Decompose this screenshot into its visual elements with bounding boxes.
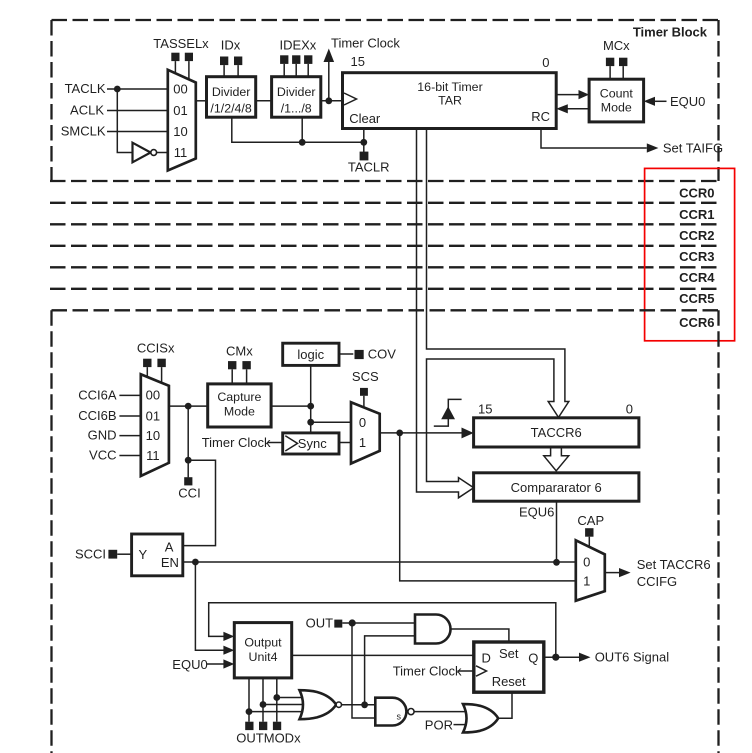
svg-text:Timer Clock: Timer Clock bbox=[202, 435, 271, 450]
svg-text:01: 01 bbox=[146, 409, 160, 424]
wire NOR out to NAND bbox=[342, 704, 376, 706]
inverter (INV) bbox=[133, 143, 168, 163]
wire CCI to latch A input bbox=[183, 460, 216, 545]
svg-text:CCI6B: CCI6B bbox=[78, 408, 116, 423]
wire TACLR stem bbox=[363, 142, 365, 152]
svg-text:SCCI: SCCI bbox=[75, 547, 106, 562]
CMx control squares bbox=[228, 361, 236, 369]
svg-text:CCR3: CCR3 bbox=[679, 249, 714, 264]
wire CCI6A to mux bbox=[119, 394, 140, 396]
svg-text:/1.../8: /1.../8 bbox=[281, 101, 312, 115]
svg-text:Set TACCR6: Set TACCR6 bbox=[637, 557, 711, 572]
junction OUT node bbox=[349, 619, 356, 626]
dashed border: Timer Block box bbox=[50, 20, 719, 181]
wire CCISx squares to mux bbox=[146, 367, 148, 377]
junction CCI tap bbox=[185, 403, 192, 410]
CCR separator dashed lines bbox=[50, 203, 717, 289]
IDEXx control squares bbox=[280, 55, 288, 64]
wire TACLK to mux bbox=[107, 88, 168, 90]
svg-text:Output: Output bbox=[244, 635, 282, 649]
svg-text:0: 0 bbox=[542, 55, 549, 70]
mux SCS bbox=[351, 402, 380, 463]
hollow arrow TACCR6 to Comparator bbox=[544, 447, 569, 471]
wire AND bottom input from NOR line bbox=[365, 636, 415, 705]
svg-text:CAP: CAP bbox=[577, 513, 604, 528]
wire logic down to Sync bbox=[310, 365, 312, 433]
OUT square bbox=[334, 620, 342, 628]
junction CCI to A branch bbox=[185, 457, 192, 464]
wire AND out to FF Set bbox=[451, 629, 509, 642]
arrow into TACCR6 bbox=[462, 428, 474, 439]
svg-text:Timer Clock: Timer Clock bbox=[393, 663, 462, 678]
wire OUTMOD drop 2 bbox=[262, 678, 264, 722]
gate AND (set) bbox=[415, 615, 451, 644]
svg-text:RC: RC bbox=[531, 109, 550, 124]
wire SCS mux out to TACCR6 bbox=[380, 432, 463, 434]
svg-text:15: 15 bbox=[478, 401, 492, 416]
svg-text:16-bit Timer: 16-bit Timer bbox=[417, 80, 482, 94]
OUTMODx squares bbox=[245, 722, 281, 730]
svg-text:TACLK: TACLK bbox=[65, 81, 106, 96]
wire Timer Clock to FF bbox=[458, 670, 474, 672]
wire Timer Clock to Sync bbox=[268, 442, 283, 444]
junction OUTMOD 3 bbox=[273, 694, 280, 701]
wire SCS signal to CAP mux 1 input bbox=[400, 433, 576, 581]
svg-text:COV: COV bbox=[368, 347, 397, 362]
wire Divider1 to Divider2 bbox=[256, 100, 272, 102]
flip-flop D/Set/Reset/Q bbox=[474, 642, 544, 692]
wire SMCLK to mux bbox=[107, 131, 168, 133]
dashed border: CCR6 box bbox=[52, 310, 719, 753]
svg-text:11: 11 bbox=[146, 448, 160, 463]
svg-text:0: 0 bbox=[626, 401, 633, 416]
junction OUTMOD 2 bbox=[260, 701, 267, 708]
register TAR (16-bit Timer) bbox=[343, 73, 557, 129]
junction EQU6/EN bbox=[553, 559, 560, 566]
wire Count Mode to TAR (arrow left) bbox=[567, 108, 589, 110]
svg-text:Timer Clock: Timer Clock bbox=[331, 35, 400, 50]
svg-text:CCISx: CCISx bbox=[137, 341, 175, 356]
arrow OUT6 Signal bbox=[579, 653, 591, 662]
divider U2 /1.../8 bbox=[272, 77, 321, 118]
svg-text:IDEXx: IDEXx bbox=[279, 37, 316, 52]
gate OR (reset) bbox=[463, 704, 498, 732]
wire EQU0 to Output Unit input3 bbox=[207, 663, 224, 665]
CCI square bbox=[184, 477, 192, 485]
junction Timer Clock node bbox=[325, 97, 332, 104]
svg-text:Timer Block: Timer Block bbox=[633, 24, 708, 39]
svg-text:CCR1: CCR1 bbox=[679, 207, 714, 222]
svg-text:Mode: Mode bbox=[224, 405, 255, 419]
wire Q out bbox=[544, 656, 580, 658]
svg-text:Reset: Reset bbox=[492, 674, 526, 689]
wire Divider2 to TAR bbox=[321, 100, 343, 102]
wire TASSELx squares to mux bbox=[174, 61, 176, 73]
svg-text:TACCR6: TACCR6 bbox=[531, 425, 582, 440]
svg-text:CCI: CCI bbox=[178, 485, 200, 500]
arrows into Output Unit4 bbox=[223, 632, 234, 669]
svg-text:CMx: CMx bbox=[226, 343, 253, 358]
svg-text:10: 10 bbox=[173, 124, 187, 139]
svg-text:Divider: Divider bbox=[277, 85, 316, 99]
svg-text:OUT: OUT bbox=[306, 616, 334, 631]
svg-text:Sync: Sync bbox=[298, 436, 327, 451]
bus pipe TAR to TACCR6 / Comparator (hollow) bbox=[417, 129, 569, 498]
svg-text:TASSELx: TASSELx bbox=[153, 36, 209, 51]
wires OUTMOD taps to NOR gate bbox=[249, 698, 307, 712]
wire Q feedback to Output Unit input1 bbox=[209, 603, 556, 657]
wire OUT to NAND bottom input bbox=[352, 623, 375, 718]
junction EN node bbox=[192, 559, 199, 566]
wire RC to Set TAIFG bbox=[541, 129, 647, 149]
wire SCS square to mux bbox=[363, 396, 365, 408]
register TACCR6 bbox=[474, 418, 639, 447]
divider U1 /1/2/4/8 bbox=[207, 77, 256, 118]
svg-text:IDx: IDx bbox=[221, 37, 241, 52]
svg-text:CCR2: CCR2 bbox=[679, 228, 714, 243]
svg-text:0: 0 bbox=[583, 555, 590, 570]
labels CCR0-CCR6 bbox=[679, 186, 715, 330]
svg-text:10: 10 bbox=[146, 428, 160, 443]
svg-text:Divider: Divider bbox=[212, 85, 251, 99]
wire to SCS mux 0 input bbox=[311, 421, 351, 423]
svg-text:Count: Count bbox=[600, 87, 634, 101]
wire GND to mux bbox=[119, 435, 140, 437]
wire Output Unit4 out to D bbox=[292, 654, 474, 656]
wire TACLK branch down to inverter bbox=[117, 89, 132, 153]
svg-text:Mode: Mode bbox=[601, 100, 632, 114]
wire CAP square to mux bbox=[588, 537, 590, 548]
wire logic to COV bbox=[339, 353, 353, 355]
svg-text:CCI6A: CCI6A bbox=[78, 388, 117, 403]
wire TACLR net (divider clears) bbox=[232, 117, 364, 142]
svg-text:SCS: SCS bbox=[352, 369, 379, 384]
wire CCIS mux out to Capture Mode bbox=[169, 405, 208, 407]
mux CCIS (capture input select) bbox=[141, 374, 169, 476]
svg-text:CCR6: CCR6 bbox=[679, 315, 714, 330]
mux TASSEL (input select) bbox=[168, 70, 196, 171]
svg-text:CCR4: CCR4 bbox=[679, 270, 715, 285]
mux CAP bbox=[576, 540, 605, 600]
wire SCCI to latch bbox=[117, 553, 131, 555]
wire CCI6B to mux bbox=[119, 415, 140, 417]
mux CAP labels bbox=[583, 555, 590, 589]
svg-text:EQU6: EQU6 bbox=[519, 504, 554, 519]
svg-text:0: 0 bbox=[359, 415, 366, 430]
junction mux0 tap bbox=[307, 419, 314, 426]
svg-text:VCC: VCC bbox=[89, 448, 116, 463]
junction Q node bbox=[552, 654, 559, 661]
clock chevron TAR bbox=[344, 93, 357, 105]
svg-text:OUT6 Signal: OUT6 Signal bbox=[595, 650, 670, 665]
arrow Set TAIFG bbox=[647, 143, 659, 152]
svg-text:EN: EN bbox=[161, 555, 179, 570]
wire VCC to mux bbox=[119, 455, 140, 457]
TACLR square bbox=[360, 152, 369, 161]
junction NOR out tap bbox=[361, 701, 368, 708]
block Sync bbox=[283, 433, 339, 454]
wire Sync to SCS mux 1 input bbox=[339, 442, 351, 444]
MCx control squares bbox=[606, 58, 614, 66]
wire EN output bbox=[183, 561, 576, 563]
svg-text:/1/2/4/8: /1/2/4/8 bbox=[210, 101, 251, 115]
SCS square bbox=[360, 388, 368, 396]
wire IDEXx squares to Divider2 bbox=[283, 64, 285, 77]
junction divider2 clear bbox=[299, 139, 306, 146]
svg-text:CCR5: CCR5 bbox=[679, 291, 714, 306]
wire OR out to FF Reset bbox=[498, 692, 512, 718]
edge capture symbol bbox=[434, 399, 462, 426]
mux CCIS labels bbox=[146, 388, 160, 464]
SCCI square bbox=[108, 550, 117, 559]
wire TAR to Count Mode (arrow right) bbox=[556, 94, 579, 96]
wire POR to OR bbox=[454, 724, 469, 726]
arrow Timer Clock bbox=[324, 49, 335, 63]
svg-text:Unit4: Unit4 bbox=[249, 650, 278, 664]
wire EQU6 down bbox=[556, 501, 558, 562]
junction capture/logic bbox=[307, 403, 314, 410]
svg-text:GND: GND bbox=[88, 428, 117, 443]
latch Y/A/EN bbox=[132, 534, 183, 576]
svg-text:s: s bbox=[397, 712, 402, 722]
block Comparator 6 bbox=[474, 473, 639, 501]
svg-text:CCIFG: CCIFG bbox=[637, 574, 677, 589]
svg-text:EQU0: EQU0 bbox=[172, 657, 207, 672]
block Count Mode bbox=[589, 79, 644, 122]
svg-text:EQU0: EQU0 bbox=[670, 94, 705, 109]
svg-text:Q: Q bbox=[528, 651, 538, 666]
wire OUTMOD drop 1 bbox=[248, 678, 250, 722]
block logic bbox=[283, 343, 339, 365]
CAP square bbox=[585, 528, 593, 537]
svg-text:1: 1 bbox=[583, 573, 590, 588]
svg-text:Y: Y bbox=[139, 547, 148, 562]
svg-text:A: A bbox=[165, 540, 174, 555]
wire Timer Clock up bbox=[328, 60, 330, 101]
svg-text:00: 00 bbox=[173, 82, 187, 97]
junction TACLR node bbox=[360, 139, 367, 146]
wire CMx squares to Capture Mode bbox=[231, 369, 233, 384]
junction TACLK node bbox=[114, 86, 121, 93]
wire IDx squares to Divider1 bbox=[223, 65, 225, 77]
junction OUTMOD 1 bbox=[246, 708, 253, 715]
mux SCS labels bbox=[359, 415, 366, 450]
IDx control squares bbox=[220, 57, 228, 66]
wire ACLK to mux bbox=[107, 110, 168, 112]
svg-text:CCR0: CCR0 bbox=[679, 186, 714, 201]
wire OUT square to AND bbox=[342, 622, 415, 624]
gate NOR (outmod decode) bbox=[300, 690, 342, 719]
svg-text:TAR: TAR bbox=[438, 94, 462, 108]
svg-text:Set: Set bbox=[499, 646, 519, 661]
wire OUTMOD drop 3 bbox=[276, 678, 278, 722]
svg-text:1: 1 bbox=[359, 435, 366, 450]
svg-text:00: 00 bbox=[146, 388, 160, 403]
svg-text:Compararator 6: Compararator 6 bbox=[511, 480, 602, 495]
svg-text:Set TAIFG: Set TAIFG bbox=[663, 140, 723, 155]
svg-text:ACLK: ACLK bbox=[70, 103, 104, 118]
arrow Set TACCR6 CCIFG bbox=[619, 568, 631, 577]
wire Capture Mode out bbox=[271, 405, 311, 407]
mux labels 00 01 10 11 bbox=[173, 82, 187, 161]
wire NAND out to OR bbox=[414, 711, 470, 713]
svg-text:OUTMODx: OUTMODx bbox=[236, 731, 301, 746]
wire EN to Output Unit input2 bbox=[195, 562, 224, 650]
svg-text:SMCLK: SMCLK bbox=[61, 124, 106, 139]
wire EQU0 to Count Mode (arrow left) bbox=[654, 100, 667, 102]
wire CAP mux out bbox=[605, 572, 620, 574]
svg-text:Clear: Clear bbox=[349, 111, 381, 126]
wire MCx squares to Count Mode bbox=[609, 66, 611, 79]
svg-text:D: D bbox=[482, 651, 491, 666]
red highlight rectangle bbox=[645, 168, 735, 340]
svg-text:11: 11 bbox=[174, 145, 188, 160]
block Capture Mode bbox=[208, 384, 271, 427]
gate NAND (s) bbox=[375, 698, 414, 726]
svg-text:15: 15 bbox=[351, 54, 365, 69]
wire mux out to Divider1 bbox=[196, 100, 207, 102]
svg-text:TACLR: TACLR bbox=[348, 159, 390, 174]
wire divider2 to TACLR net bbox=[301, 117, 303, 142]
junction capture signal bbox=[396, 430, 403, 437]
svg-text:Capture: Capture bbox=[217, 390, 261, 404]
COV square bbox=[355, 350, 364, 359]
svg-text:logic: logic bbox=[297, 347, 324, 362]
svg-text:MCx: MCx bbox=[603, 38, 630, 53]
svg-text:POR: POR bbox=[425, 717, 453, 732]
CCISx control squares bbox=[143, 359, 151, 367]
svg-text:01: 01 bbox=[173, 103, 187, 118]
block Output Unit4 bbox=[234, 623, 291, 678]
wire CCI drop bbox=[187, 406, 189, 477]
TASSELx control squares bbox=[171, 53, 179, 61]
